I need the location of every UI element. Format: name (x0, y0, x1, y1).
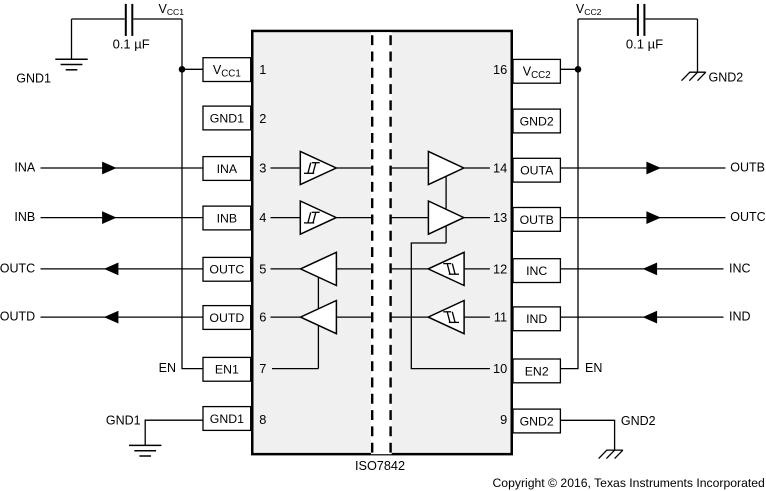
svg-text:INA: INA (14, 161, 36, 175)
wire pin7 stub (272, 368, 318, 370)
svg-text:16: 16 (493, 62, 507, 77)
label GND2 bottom-right (621, 414, 656, 428)
wire IND (560, 316, 723, 318)
label ISO7842 (355, 459, 405, 473)
arrow OUTC from pin 13 (646, 211, 661, 224)
svg-text:13: 13 (493, 210, 507, 225)
arrow OUTB from pin 14 (646, 162, 661, 175)
label GND1 top-left (16, 72, 51, 86)
arrow OUTD out of pin 6 (104, 311, 119, 324)
wire buffer D in from barrier (336, 316, 372, 318)
pin number 5 (259, 261, 266, 276)
buffer C (pin 5 OUTC) (301, 252, 337, 285)
svg-text:3: 3 (259, 161, 266, 176)
arrow INB into pin 4 (102, 211, 117, 224)
svg-text:OUTB: OUTB (520, 213, 554, 227)
svg-text:1: 1 (259, 62, 266, 77)
label VCC2 net (576, 2, 602, 17)
isolation barrier dashed line right (389, 35, 391, 453)
pin number 12 (493, 261, 507, 276)
wire pin5 stub (271, 268, 301, 270)
pin box GND2 pin 9 (513, 409, 560, 433)
wire VCC2 to pin 16 (560, 68, 578, 70)
svg-text:OUTC: OUTC (0, 262, 35, 276)
svg-text:EN: EN (585, 361, 602, 375)
ground GND1 earth symbol bottom-left (129, 445, 161, 456)
wire pin11 stub (464, 316, 490, 318)
schmitt buffer A (pin 3 INA) (300, 151, 336, 184)
pin box IND pin 11 (513, 307, 560, 331)
node VCC1 junction dot (179, 66, 186, 73)
svg-text:12: 12 (493, 261, 507, 276)
svg-text:6: 6 (259, 310, 266, 325)
wire pin14 stub (464, 167, 490, 169)
pin box GND1 pin 2 (203, 106, 251, 130)
svg-text:10: 10 (493, 361, 507, 376)
wire VCC1 to pin 1 (182, 68, 203, 70)
pin box VCC1 pin 1 (203, 58, 251, 82)
pin number 10 (493, 361, 507, 376)
label GND1 bottom-left (106, 414, 141, 428)
wire OUTC right (560, 217, 725, 219)
svg-text:GND1: GND1 (210, 412, 244, 426)
svg-text:4: 4 (259, 210, 266, 225)
svg-text:EN: EN (159, 361, 176, 375)
svg-text:GND1: GND1 (16, 72, 51, 86)
buffer F (pin 13 OUTB) (428, 201, 463, 234)
svg-text:7: 7 (259, 361, 266, 376)
label VCC1 net (159, 2, 185, 17)
svg-text:11: 11 (494, 310, 507, 325)
wire C1 to ground (71, 19, 73, 59)
label EN left (159, 361, 176, 375)
pin box INA pin 3 (203, 157, 251, 181)
wire VCC1 rail down to EN1 (182, 19, 203, 369)
wire VCC2 bypass right segment (646, 18, 698, 20)
svg-text:IND: IND (729, 310, 751, 324)
wire OUTC (41, 268, 204, 270)
isolation barrier dashed line left (371, 35, 373, 453)
wire pin3 stub (271, 167, 301, 169)
pin number 1 (259, 62, 266, 77)
pin number 16 (493, 62, 507, 77)
wire EN2 enable chain vertical (445, 173, 447, 243)
pin box VCC2 pin 16 (513, 59, 560, 83)
label OUTC output left (0, 262, 35, 276)
svg-text:EN1: EN1 (215, 363, 239, 377)
svg-text:5: 5 (259, 261, 266, 276)
wire INB (41, 217, 204, 219)
pin number 11 (494, 310, 507, 325)
svg-text:14: 14 (493, 161, 507, 176)
wire pin 8 to ground (145, 420, 203, 445)
isolation barrier white strip (371, 32, 392, 454)
arrow INC into pin 12 (643, 263, 658, 276)
svg-text:GND2: GND2 (520, 114, 554, 128)
pin box GND2 pin 15 (513, 109, 560, 133)
label GND2 top-right (709, 71, 744, 85)
svg-text:GND1: GND1 (106, 414, 141, 428)
label INB input (14, 210, 35, 224)
wire pin 9 to ground (560, 420, 614, 450)
buffer D (pin 6 OUTD) (301, 301, 337, 334)
buffer E (pin 14 OUTA) (428, 151, 463, 184)
svg-text:EN2: EN2 (525, 364, 549, 378)
pin box INC pin 12 (513, 259, 560, 283)
svg-text:INA: INA (217, 162, 238, 176)
svg-text:OUTD: OUTD (209, 311, 244, 325)
wire buffer F in from barrier (391, 217, 429, 219)
pin box OUTB pin 13 (513, 208, 560, 232)
wire EN2 enable chain elbow (411, 243, 490, 369)
wire pin6 stub (271, 316, 301, 318)
pin box OUTD pin 6 (203, 306, 251, 330)
label OUTC output right (730, 210, 765, 224)
label C1 value 0.1 uF (113, 37, 150, 52)
wire buffer C in from barrier (336, 268, 372, 270)
pin number 9 (500, 412, 507, 427)
pin box OUTC pin 5 (203, 257, 251, 281)
copyright notice (493, 476, 765, 490)
pin number 13 (493, 210, 507, 225)
wire buffer H out to barrier (391, 316, 429, 318)
ground GND2 chassis symbol top-right (682, 72, 706, 81)
ground GND1 earth symbol top-left (55, 59, 87, 70)
pin number 14 (493, 161, 507, 176)
IC body U1 ISO7842 (252, 31, 512, 454)
svg-text:0.1 µF: 0.1 µF (626, 37, 663, 52)
svg-text:GND2: GND2 (520, 414, 554, 428)
capacitor C2 0.1uF (638, 4, 645, 36)
wire buffer G out to barrier (391, 268, 429, 270)
pin number 6 (259, 310, 266, 325)
wire pin12 stub (464, 268, 490, 270)
svg-text:GND2: GND2 (621, 414, 656, 428)
svg-text:INB: INB (217, 211, 238, 225)
wire VCC1 bypass left segment (72, 18, 125, 20)
pin number 7 (259, 361, 266, 376)
label INC input (729, 262, 751, 276)
svg-text:OUTA: OUTA (520, 164, 554, 178)
svg-text:8: 8 (259, 412, 266, 427)
svg-text:0.1 µF: 0.1 µF (113, 37, 150, 52)
wire OUTB (560, 167, 725, 169)
capacitor C1 0.1uF (126, 4, 133, 36)
pin box EN1 pin 7 (203, 357, 251, 381)
wire VCC2 rail down to EN2 (560, 19, 578, 369)
svg-text:OUTC: OUTC (209, 263, 244, 277)
svg-text:INC: INC (526, 264, 547, 278)
pin number 4 (259, 210, 266, 225)
svg-text:Copyright © 2016, Texas Instru: Copyright © 2016, Texas Instruments Inco… (493, 476, 765, 490)
svg-text:2: 2 (259, 111, 266, 126)
label INA input (14, 161, 36, 175)
label OUTD output left (0, 310, 35, 324)
svg-text:ISO7842: ISO7842 (355, 459, 405, 473)
pin box INB pin 4 (203, 206, 251, 230)
schmitt buffer G (pin 12 INC) (428, 252, 464, 285)
svg-text:OUTC: OUTC (730, 210, 765, 224)
pin number 2 (259, 111, 266, 126)
arrow INA into pin 3 (102, 162, 117, 175)
node VCC2 junction dot (575, 66, 582, 73)
wire buffer A out to barrier (336, 167, 372, 169)
arrow OUTC out of pin 5 (104, 263, 119, 276)
pin number 3 (259, 161, 266, 176)
pin box EN2 pin 10 (513, 359, 560, 383)
svg-text:VCC1: VCC1 (159, 2, 185, 17)
pin box OUTA pin 14 (513, 158, 560, 182)
wire EN1 enable chain (317, 276, 319, 368)
svg-text:INC: INC (729, 262, 751, 276)
wire INC (560, 268, 723, 270)
svg-text:OUTD: OUTD (0, 310, 35, 324)
svg-text:OUTB: OUTB (730, 161, 765, 175)
label OUTB output right (730, 161, 765, 175)
svg-text:9: 9 (500, 412, 507, 427)
wire OUTD (41, 316, 204, 318)
wire pin13 stub (464, 217, 490, 219)
svg-text:GND2: GND2 (709, 71, 744, 85)
arrow IND into pin 11 (643, 311, 658, 324)
wire VCC2 bypass left segment (578, 18, 637, 20)
label IND input (729, 310, 751, 324)
wire VCC1 bypass right segment (133, 18, 182, 20)
schmitt buffer H (pin 11 IND) (428, 301, 464, 334)
label EN right (585, 361, 602, 375)
svg-text:IND: IND (526, 312, 547, 326)
wire INA (41, 167, 204, 169)
label C2 value 0.1 uF (626, 37, 663, 52)
wire buffer E in from barrier (391, 167, 429, 169)
svg-text:INB: INB (14, 210, 35, 224)
svg-text:GND1: GND1 (210, 111, 244, 125)
wire C2 to ground (697, 19, 699, 72)
ground GND2 chassis symbol bottom-right (599, 450, 623, 459)
pin box GND1 pin 8 (203, 407, 251, 431)
wire pin4 stub (271, 217, 301, 219)
svg-text:VCC2: VCC2 (576, 2, 602, 17)
pin number 8 (259, 412, 266, 427)
schmitt buffer B (pin 4 INB) (300, 201, 336, 234)
wire buffer B out to barrier (336, 217, 372, 219)
